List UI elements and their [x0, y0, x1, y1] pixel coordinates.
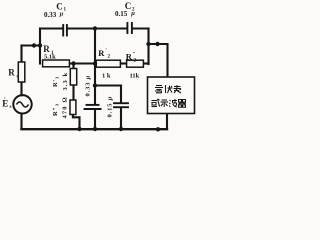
svg-text:0.33 μ: 0.33 μ: [85, 75, 92, 97]
svg-text:11k: 11k: [130, 73, 140, 80]
svg-text:1 k: 1 k: [102, 73, 111, 80]
svg-text:μ: μ: [59, 11, 64, 18]
svg-text:5.1k: 5.1k: [44, 54, 56, 61]
svg-text:μ: μ: [130, 10, 135, 17]
svg-text:s: s: [10, 105, 12, 110]
svg-text:′: ′: [106, 49, 108, 54]
svg-text:R: R: [43, 44, 50, 54]
svg-text:R: R: [98, 48, 105, 58]
svg-text:470 Ω: 470 Ω: [62, 96, 69, 118]
svg-text:R′3: R′3: [52, 76, 60, 87]
svg-text:s: s: [17, 75, 19, 80]
svg-text:2: 2: [108, 55, 111, 60]
svg-text:″: ″: [133, 53, 136, 58]
svg-text:3.3 k: 3.3 k: [62, 72, 69, 91]
svg-text:1: 1: [64, 8, 67, 13]
svg-text:0.15: 0.15: [115, 10, 128, 18]
svg-text:R″3: R″3: [52, 103, 60, 116]
svg-text:R: R: [8, 68, 15, 78]
svg-text:0.33: 0.33: [44, 11, 57, 19]
svg-text:0.15 μ: 0.15 μ: [107, 96, 114, 118]
